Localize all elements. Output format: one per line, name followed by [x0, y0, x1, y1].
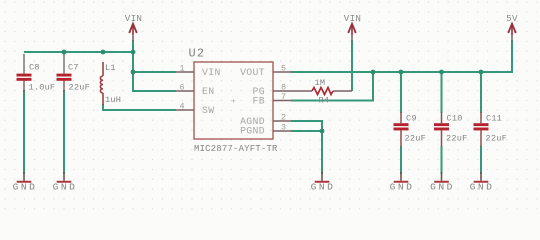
- wire VOUT rail to 5V: [291, 40, 512, 72]
- svg-text:22uF: 22uF: [446, 134, 467, 144]
- wire AGND PGND join: [291, 121, 322, 174]
- inductor L1: [100, 62, 121, 105]
- svg-text:1: 1: [179, 64, 184, 74]
- svg-text:6: 6: [179, 83, 184, 93]
- pin 4 stub: [176, 102, 194, 112]
- svg-text:1M: 1M: [315, 78, 326, 88]
- supply VIN arrow left: [125, 13, 142, 42]
- pin 8 stub: [273, 83, 291, 93]
- ground C7: [53, 172, 78, 193]
- junction node pin1 branch: [131, 70, 136, 75]
- svg-text:+: +: [231, 98, 236, 107]
- svg-text:22uF: 22uF: [405, 134, 426, 144]
- junction node C9 rail: [399, 70, 404, 75]
- svg-text:22uF: 22uF: [486, 134, 507, 144]
- svg-text:VIN: VIN: [202, 67, 221, 78]
- wire VIN rail top-left: [24, 51, 133, 53]
- pin 5 stub: [273, 64, 291, 74]
- svg-text:8: 8: [281, 83, 286, 93]
- junction node FB rail: [371, 70, 376, 75]
- svg-text:GND: GND: [470, 182, 495, 193]
- supply VIN arrow right: [344, 13, 361, 42]
- capacitor C8: [17, 54, 56, 93]
- svg-text:1.0uF: 1.0uF: [29, 83, 56, 93]
- pin 6 stub: [176, 83, 194, 93]
- svg-text:C10: C10: [447, 114, 463, 124]
- resistor R4: [291, 78, 352, 106]
- junction node VIN rail arrow: [131, 50, 136, 55]
- svg-text:C9: C9: [406, 114, 417, 124]
- ground C11: [470, 172, 495, 193]
- junction node VIN rail C7: [62, 50, 67, 55]
- capacitor C10: [434, 112, 467, 147]
- svg-text:VOUT: VOUT: [240, 67, 265, 78]
- ground U2: [311, 172, 336, 193]
- junction node VIN rail L1: [101, 50, 106, 55]
- svg-text:GND: GND: [430, 182, 455, 193]
- svg-text:VIN: VIN: [344, 13, 361, 24]
- svg-text:PGND: PGND: [240, 126, 265, 137]
- svg-text:2: 2: [281, 113, 286, 123]
- wire to pin 6 EN: [133, 72, 176, 91]
- wire C11 branch: [480, 72, 482, 174]
- ground C9: [390, 172, 415, 193]
- wire to pin 1 VIN: [133, 71, 176, 73]
- junction node C11 rail: [479, 70, 484, 75]
- svg-text:C7: C7: [68, 63, 79, 73]
- svg-text:L1: L1: [105, 63, 116, 73]
- svg-text:1uH: 1uH: [105, 95, 121, 105]
- wire C9 branch: [400, 72, 402, 174]
- svg-text:GND: GND: [390, 182, 415, 193]
- wire FB to VOUT rail: [291, 72, 373, 101]
- wire VIN arrow drop: [132, 40, 134, 72]
- svg-text:EN: EN: [202, 86, 214, 97]
- wire L1 to pin 4 SW: [103, 104, 176, 110]
- pin 1 stub: [176, 64, 194, 74]
- svg-text:VIN: VIN: [125, 13, 142, 24]
- capacitor C11: [474, 112, 507, 147]
- svg-text:3: 3: [281, 123, 286, 133]
- svg-text:5V: 5V: [506, 13, 518, 24]
- pin 7 stub: [273, 92, 291, 102]
- svg-text:SW: SW: [202, 105, 214, 116]
- wire C8 to GND: [23, 90, 25, 174]
- op-amp U2 MIC2877-AYFT-TR box: [189, 47, 279, 155]
- supply 5V arrow: [506, 13, 518, 42]
- junction node AGND PGND: [320, 129, 325, 134]
- svg-text:U2: U2: [189, 47, 206, 61]
- svg-text:FB: FB: [253, 96, 265, 107]
- svg-text:MIC2877-AYFT-TR: MIC2877-AYFT-TR: [194, 144, 278, 154]
- svg-text:GND: GND: [13, 182, 38, 193]
- wire C7 to GND: [63, 90, 65, 174]
- pin 3 stub: [273, 123, 291, 133]
- pin 2 stub: [273, 113, 291, 123]
- svg-text:4: 4: [179, 102, 184, 112]
- capacitor C9: [394, 112, 426, 147]
- capacitor C7: [57, 54, 90, 93]
- svg-text:22uF: 22uF: [69, 83, 90, 93]
- wire C10 branch: [441, 72, 443, 174]
- junction node C10 rail: [439, 70, 444, 75]
- svg-text:R4: R4: [319, 96, 330, 106]
- svg-text:GND: GND: [53, 182, 78, 193]
- ground C10: [430, 172, 455, 193]
- svg-text:GND: GND: [311, 182, 336, 193]
- svg-text:C11: C11: [486, 114, 502, 124]
- svg-text:C8: C8: [29, 63, 40, 73]
- wire VIN2 to R4: [351, 40, 353, 91]
- ground C8: [13, 172, 38, 193]
- svg-text:5: 5: [281, 64, 286, 74]
- svg-text:7: 7: [281, 92, 286, 102]
